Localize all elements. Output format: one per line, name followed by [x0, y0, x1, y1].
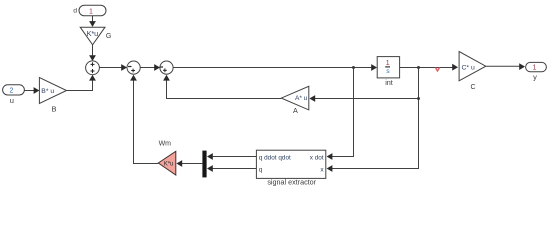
wire S2 to S3 [140, 64, 160, 71]
gain C (C*u) [459, 52, 486, 91]
wire u to gain B [24, 87, 39, 94]
sum S1 [86, 61, 100, 75]
wire extractor q to mux [207, 165, 256, 172]
svg-text:K*u: K*u [87, 29, 99, 38]
gain G (K*u) [80, 27, 111, 45]
svg-text:C* u: C* u [462, 64, 475, 71]
svg-text:B: B [51, 105, 56, 114]
wire S3 to integrator [173, 64, 377, 71]
svg-text:int: int [385, 78, 393, 87]
svg-text:y: y [533, 72, 537, 81]
wire C to output y [486, 63, 525, 70]
node tap pre-integrator (x dot) [352, 66, 355, 69]
wire integrator to gain C [400, 64, 458, 71]
svg-text:A* u: A* u [295, 95, 308, 102]
svg-text:1: 1 [89, 8, 93, 15]
wire S1 to S2 [99, 64, 127, 71]
wire G to sum S1 [89, 45, 96, 61]
wire extractor q ddot qdot to mux [207, 153, 256, 160]
red signal marker [435, 68, 439, 71]
svg-text:signal extractor: signal extractor [267, 177, 316, 186]
gain B (B*u) [39, 78, 66, 114]
junction dot at A branch [417, 97, 420, 100]
wire B to sum S1 [67, 75, 96, 91]
svg-text:C: C [470, 84, 475, 91]
svg-text:A: A [293, 106, 298, 115]
wire Wm to sum S2 [130, 75, 158, 164]
wire d to gain G [89, 16, 96, 27]
svg-text:B* u: B* u [41, 88, 54, 95]
mux [202, 151, 206, 178]
svg-text:Wm: Wm [159, 141, 172, 148]
svg-text:x dot: x dot [310, 154, 324, 161]
svg-text:K*u: K*u [164, 161, 174, 167]
node tap post-integrator (x) [417, 66, 420, 69]
wire to gain A input [309, 95, 418, 102]
sum S3 [160, 61, 173, 74]
svg-text:2: 2 [9, 87, 13, 94]
svg-text:q: q [259, 166, 263, 173]
svg-text:d: d [73, 7, 77, 14]
wire mux to gain Wm [176, 160, 202, 167]
input port d (Inport 1) [73, 5, 106, 16]
gain A (A*u) [281, 86, 309, 115]
wire x node down to extractor x input [327, 68, 419, 172]
svg-text:1: 1 [533, 65, 537, 72]
wire A to sum S3 [163, 75, 281, 99]
svg-text:q ddot qdot: q ddot qdot [259, 154, 291, 161]
subsystem signal extractor [256, 150, 325, 186]
integrator int (1/s) [377, 57, 399, 88]
svg-text:1: 1 [386, 60, 390, 67]
output port y (Outport 1) [526, 62, 547, 81]
svg-text:s: s [386, 68, 390, 75]
svg-text:G: G [106, 33, 111, 40]
svg-text:u: u [10, 96, 14, 105]
sum S2 [127, 61, 140, 74]
gain Wm (K*u) [158, 141, 176, 175]
input port u (Inport 2) [3, 85, 25, 105]
wire x dot node down to extractor x dot input [327, 68, 354, 160]
